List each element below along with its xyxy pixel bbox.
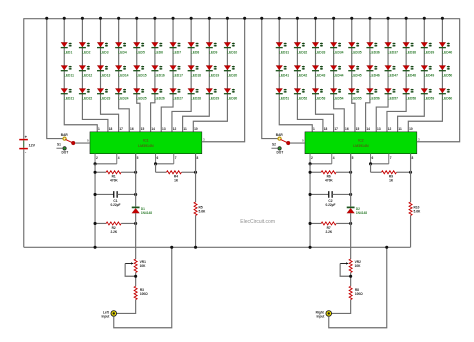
junction on +12V rail (column 5) — [135, 17, 138, 20]
junction R1 right — [134, 171, 137, 174]
wire D1 cathode column through ground rail to VR1 — [134, 213, 136, 259]
wire LED column 39 to IC2 pin 11 — [398, 18, 425, 132]
junction jack ground at rail (right) — [385, 246, 388, 249]
IC1 top pin numbers — [98, 127, 198, 131]
svg-text:R4: R4 — [174, 174, 178, 178]
svg-text:13: 13 — [377, 127, 381, 131]
junction on +12V rail (column 4) — [117, 17, 120, 20]
junction on +12V rail (column 9) — [208, 17, 211, 20]
svg-text:LM3914N: LM3914N — [353, 144, 369, 148]
wire ground bottom rail — [24, 246, 411, 248]
svg-text:LED39: LED39 — [424, 50, 434, 54]
svg-text:470K: 470K — [110, 178, 118, 182]
resistor R10 5.6K — [409, 202, 421, 215]
LED LED35 — [348, 42, 362, 54]
svg-text:Left: Left — [103, 310, 110, 314]
wire R8 to input jack — [332, 300, 351, 314]
LED LED2 — [79, 42, 91, 54]
trimmer VR1 10K — [125, 259, 146, 272]
svg-text:LED13: LED13 — [100, 73, 110, 77]
svg-text:1K: 1K — [174, 178, 179, 182]
svg-text:LED48: LED48 — [406, 73, 416, 77]
LED LED22 — [79, 88, 93, 100]
wire VR1 wiper loop — [125, 263, 135, 276]
LED LED33 — [312, 42, 326, 54]
wire jack ground return (right) — [329, 247, 387, 328]
wire IC2 pin8 column — [409, 154, 411, 202]
LED LED55 — [348, 88, 362, 100]
LED LED5 — [133, 42, 145, 54]
resistor R8 100 ohm — [349, 286, 363, 299]
resistor R6 4.70K — [310, 171, 351, 183]
svg-text:14: 14 — [151, 127, 155, 131]
junction R7 right — [349, 222, 352, 225]
LED LED20 — [224, 65, 238, 77]
svg-text:17: 17 — [334, 127, 338, 131]
svg-text:R1: R1 — [112, 174, 116, 178]
svg-text:LED15: LED15 — [136, 73, 146, 77]
wire IC2 pin2 column to ground rail — [309, 164, 311, 247]
svg-text:LED54: LED54 — [333, 96, 343, 100]
svg-text:LED60: LED60 — [442, 96, 452, 100]
junction jack ground at rail (left) — [170, 246, 173, 249]
wire IC1 pin2 column to ground rail — [94, 164, 96, 247]
LED LED53 — [312, 88, 326, 100]
LED LED4 — [115, 42, 127, 54]
svg-text:2.2K: 2.2K — [325, 230, 332, 234]
wire VR2 wiper loop — [340, 263, 351, 276]
wire LED column 37 to IC2 pin 13 — [376, 18, 388, 132]
svg-text:2: 2 — [311, 156, 313, 160]
svg-text:LED58: LED58 — [406, 96, 416, 100]
wire IC1 pin8 column — [194, 154, 196, 202]
svg-text:LED23: LED23 — [100, 96, 110, 100]
LED LED27 — [170, 88, 184, 100]
LED LED8 — [188, 42, 200, 54]
svg-text:2: 2 — [96, 156, 98, 160]
svg-text:LED14: LED14 — [118, 73, 128, 77]
svg-text:LED53: LED53 — [315, 96, 325, 100]
junction C2 left — [309, 193, 312, 196]
svg-text:R2: R2 — [112, 226, 116, 230]
LED LED40 — [439, 42, 453, 54]
LED LED1 — [61, 42, 73, 54]
svg-text:7: 7 — [390, 156, 392, 160]
junction IC1 V+ riser at +12V rail — [243, 17, 246, 20]
junction C1 left — [94, 193, 97, 196]
svg-text:D1: D1 — [141, 207, 145, 211]
svg-text:8: 8 — [412, 156, 414, 160]
svg-text:S2: S2 — [272, 142, 276, 146]
LED LED31 — [276, 42, 290, 54]
svg-text:LED44: LED44 — [333, 73, 343, 77]
wire LED column 9 to IC1 pin 11 — [183, 18, 210, 132]
svg-text:R6: R6 — [327, 174, 331, 178]
wire LED column 6 to IC1 pin 14 — [151, 18, 155, 132]
wire LED column 36 to IC2 pin 14 — [366, 18, 370, 132]
svg-text:5.6K: 5.6K — [414, 210, 421, 214]
LED LED21 — [61, 88, 75, 100]
svg-text:1: 1 — [313, 127, 315, 131]
wire LED column 7 to IC1 pin 13 — [161, 18, 173, 132]
resistor R4 1K — [156, 171, 196, 183]
svg-text:LED16: LED16 — [155, 73, 165, 77]
svg-text:LED3: LED3 — [100, 50, 109, 54]
wire battery positive feed (left edge) — [23, 18, 25, 139]
svg-text:LED17: LED17 — [173, 73, 183, 77]
svg-text:4: 4 — [333, 156, 335, 160]
wire +12V top supply rail — [24, 17, 460, 19]
svg-text:5: 5 — [137, 156, 139, 160]
svg-text:C1: C1 — [113, 199, 117, 203]
wire IC1 pin3 V+ to +12V rail — [202, 18, 245, 142]
LED LED3 — [97, 42, 109, 54]
wire VR1 bottom lead — [134, 272, 136, 286]
svg-text:LED28: LED28 — [191, 96, 201, 100]
LED LED52 — [294, 88, 308, 100]
junction R5 at ground rail — [194, 246, 197, 249]
svg-text:LED2: LED2 — [82, 50, 91, 54]
wire LED column 8 to IC1 pin 12 — [172, 18, 191, 132]
svg-text:R10: R10 — [414, 206, 420, 210]
svg-text:LED34: LED34 — [333, 50, 343, 54]
svg-text:1N4148: 1N4148 — [141, 211, 152, 215]
LED LED48 — [403, 65, 417, 77]
wire IC1 pin6-pin7 bridge — [156, 163, 174, 165]
LED LED57 — [385, 88, 399, 100]
svg-text:LED43: LED43 — [315, 73, 325, 77]
LED LED56 — [366, 88, 380, 100]
LED LED23 — [97, 88, 111, 100]
junction on +12V rail (column 10) — [226, 17, 229, 20]
svg-text:6: 6 — [157, 156, 159, 160]
wire LED column 10 to IC1 pin 10 — [193, 18, 227, 132]
svg-text:470K: 470K — [325, 178, 333, 182]
LED LED37 — [385, 42, 399, 54]
LED LED59 — [421, 88, 435, 100]
wire LED column 3 to IC1 pin 17 — [101, 18, 119, 132]
svg-text:DOT: DOT — [61, 150, 68, 154]
junction on +12V rail (column 3) — [99, 17, 102, 20]
junction on +12V rail (column 2) — [81, 17, 84, 20]
svg-text:LED19: LED19 — [209, 73, 219, 77]
IC IC1 LM3914N body — [90, 132, 202, 154]
svg-text:10K: 10K — [355, 264, 362, 268]
LED LED32 — [294, 42, 308, 54]
junction on +12V rail (column 1) — [63, 17, 66, 20]
junction R6 left — [309, 171, 312, 174]
diode D1 1N4148 — [132, 207, 152, 216]
svg-text:4: 4 — [118, 156, 120, 160]
LED LED9 — [206, 42, 218, 54]
svg-text:LED32: LED32 — [297, 50, 307, 54]
wire IC1 pin2-pin4 bridge — [95, 163, 117, 165]
svg-text:12V: 12V — [29, 143, 36, 147]
resistor R5 5.6K — [194, 202, 206, 215]
LED LED49 — [421, 65, 435, 77]
svg-text:11: 11 — [183, 127, 187, 131]
svg-text:LED10: LED10 — [227, 50, 237, 54]
svg-text:Right: Right — [316, 310, 325, 314]
wire IC2 pin2-pin4 bridge — [310, 163, 332, 165]
svg-text:BAR: BAR — [276, 133, 284, 137]
svg-text:LED31: LED31 — [279, 50, 289, 54]
svg-text:LED8: LED8 — [191, 50, 200, 54]
svg-text:LED37: LED37 — [388, 50, 398, 54]
svg-text:LED26: LED26 — [155, 96, 165, 100]
wire LED column 33 to IC2 pin 17 — [316, 18, 334, 132]
junction pin2 column at ground rail — [309, 246, 312, 249]
LED LED30 — [224, 88, 238, 100]
junction on +12V rail (column 6) — [153, 17, 156, 20]
LED LED58 — [403, 88, 417, 100]
LED LED28 — [188, 88, 202, 100]
LED LED60 — [439, 88, 453, 100]
wire LED column 5 to IC1 pin 15 — [137, 18, 140, 132]
svg-text:R9: R9 — [389, 174, 393, 178]
LED LED11 — [61, 65, 74, 77]
svg-text:5: 5 — [352, 156, 354, 160]
junction R4 right at pin8 column — [194, 171, 197, 174]
svg-text:5.6K: 5.6K — [199, 210, 206, 214]
svg-text:LED36: LED36 — [370, 50, 380, 54]
LED LED14 — [115, 65, 129, 77]
wire IC1 pin5 signal column — [134, 154, 136, 207]
LED LED38 — [403, 42, 417, 54]
resistor R2 2.2K — [95, 222, 136, 234]
LED LED19 — [206, 65, 220, 77]
svg-text:LED52: LED52 — [297, 96, 307, 100]
svg-text:LED22: LED22 — [82, 96, 92, 100]
LED LED43 — [312, 65, 326, 77]
junction R1 left — [94, 171, 97, 174]
junction IC1 pin2 bridge — [94, 162, 97, 165]
switch S2 mode select — [271, 133, 290, 155]
svg-text:LED41: LED41 — [279, 73, 289, 77]
connector Right input jack — [316, 310, 332, 318]
svg-text:LED9: LED9 — [209, 50, 218, 54]
LED LED54 — [330, 88, 344, 100]
connector Left input jack — [102, 310, 117, 318]
svg-text:17: 17 — [119, 127, 123, 131]
capacitor C2 0.22uF — [310, 191, 351, 207]
svg-text:LED55: LED55 — [351, 96, 361, 100]
svg-text:LM3914N: LM3914N — [138, 144, 154, 148]
svg-text:LED45: LED45 — [351, 73, 361, 77]
LED LED44 — [330, 65, 344, 77]
svg-text:100Ω: 100Ω — [355, 292, 363, 296]
wire IC2 pin6 to R9 — [369, 164, 371, 172]
junction on +12V rail (column 8) — [190, 17, 193, 20]
svg-text:1K: 1K — [389, 178, 394, 182]
svg-text:15: 15 — [356, 127, 360, 131]
svg-text:LED20: LED20 — [227, 73, 237, 77]
junction on +12V rail (column 39) — [423, 17, 426, 20]
junction IC1 pin6 bridge — [154, 162, 157, 165]
wire R3 to input jack — [117, 300, 136, 314]
junction pin2 column at ground rail — [94, 246, 97, 249]
junction on +12V rail (column 7) — [172, 17, 175, 20]
resistor R1 4.70K — [95, 171, 136, 183]
svg-text:10: 10 — [409, 127, 413, 131]
junction R6 right — [349, 171, 352, 174]
svg-text:7: 7 — [175, 156, 177, 160]
svg-text:R8: R8 — [355, 288, 359, 292]
wire IC2 pin6-pin7 bridge — [371, 163, 389, 165]
svg-text:LED33: LED33 — [315, 50, 325, 54]
LED LED13 — [97, 65, 111, 77]
svg-text:S1: S1 — [57, 142, 61, 146]
wire LED column 4 to IC1 pin 16 — [119, 18, 130, 132]
svg-text:LED21: LED21 — [64, 96, 74, 100]
wire jack ground return (left) — [114, 247, 172, 328]
junction on +12V rail (column 40) — [441, 17, 444, 20]
junction on +12V rail (column 31) — [278, 17, 281, 20]
svg-text:LED59: LED59 — [424, 96, 434, 100]
LED LED46 — [366, 65, 380, 77]
switch S1 mode select — [56, 133, 75, 155]
junction on +12V rail (column 38) — [405, 17, 408, 20]
svg-text:14: 14 — [366, 127, 370, 131]
trimmer VR2 10K — [340, 259, 361, 272]
svg-text:VR1: VR1 — [140, 260, 146, 264]
svg-text:16: 16 — [130, 127, 134, 131]
LED LED6 — [151, 42, 163, 54]
resistor R3 100 ohm — [134, 286, 148, 299]
svg-text:LED38: LED38 — [406, 50, 416, 54]
svg-text:LED1: LED1 — [64, 50, 73, 54]
svg-text:LED18: LED18 — [191, 73, 201, 77]
svg-text:BAR: BAR — [61, 133, 69, 137]
LED LED34 — [330, 42, 344, 54]
svg-text:R3: R3 — [140, 288, 144, 292]
svg-text:12: 12 — [173, 127, 177, 131]
junction on +12V rail (column 36) — [368, 17, 371, 20]
junction IC2 pin6 bridge — [369, 162, 372, 165]
junction on +12V rail (column 33) — [314, 17, 317, 20]
svg-text:15: 15 — [141, 127, 145, 131]
junction BAR supply column at +12V rail (left) — [45, 17, 48, 20]
svg-text:LED4: LED4 — [118, 50, 127, 54]
IC2 bottom pin stubs and numbers — [310, 154, 414, 173]
svg-text:LED46: LED46 — [370, 73, 380, 77]
LED LED47 — [385, 65, 399, 77]
svg-text:1: 1 — [98, 127, 100, 131]
svg-text:LED47: LED47 — [388, 73, 398, 77]
wire LED column 40 to IC2 pin 10 — [408, 18, 442, 132]
junction on +12V rail (column 32) — [296, 17, 299, 20]
junction R2 left — [94, 222, 97, 225]
wire D2 cathode column through ground rail to VR2 — [349, 213, 351, 259]
svg-text:LED7: LED7 — [173, 50, 182, 54]
svg-text:D2: D2 — [356, 207, 360, 211]
IC IC2 LM3914N body — [305, 132, 417, 154]
junction VR1 wiper to bottom — [134, 275, 137, 278]
svg-text:LED11: LED11 — [64, 73, 74, 77]
svg-text:2.2K: 2.2K — [110, 230, 117, 234]
LED LED10 — [224, 42, 238, 54]
svg-text:input: input — [317, 314, 326, 318]
svg-text:LED49: LED49 — [424, 73, 434, 77]
junction R2 right — [134, 222, 137, 225]
wire S1 pole to IC1 pin9 — [75, 142, 90, 144]
svg-text:R7: R7 — [327, 226, 331, 230]
svg-text:0.22µF: 0.22µF — [325, 203, 335, 207]
svg-text:0.22µF: 0.22µF — [110, 203, 120, 207]
LED LED25 — [133, 88, 147, 100]
LED LED26 — [151, 88, 165, 100]
svg-text:VR2: VR2 — [355, 260, 361, 264]
wire LED column 35 to IC2 pin 15 — [352, 18, 355, 132]
svg-text:LED6: LED6 — [155, 50, 164, 54]
junction VR2 wiper to bottom — [349, 275, 352, 278]
LED LED16 — [151, 65, 165, 77]
LED LED12 — [79, 65, 93, 77]
wire S2 pole to IC2 pin9 — [290, 142, 305, 144]
svg-text:R5: R5 — [199, 206, 203, 210]
wire LED column 2 to IC1 pin 18 — [82, 18, 108, 132]
wire LED column 32 to IC2 pin 18 — [297, 18, 323, 132]
resistor R9 1K — [371, 171, 411, 183]
junction R7 left — [309, 222, 312, 225]
LED LED36 — [366, 42, 380, 54]
junction on +12V rail (column 37) — [387, 17, 390, 20]
LED LED24 — [115, 88, 129, 100]
svg-text:LED35: LED35 — [351, 50, 361, 54]
svg-text:ElecCircuit.com: ElecCircuit.com — [240, 219, 275, 225]
svg-text:LED25: LED25 — [136, 96, 146, 100]
svg-text:13: 13 — [162, 127, 166, 131]
wire IC2 pin5 signal column — [349, 154, 351, 207]
LED LED51 — [276, 88, 290, 100]
LED LED15 — [133, 65, 147, 77]
battery B1 12V — [19, 134, 35, 154]
LED LED50 — [439, 65, 453, 77]
svg-text:12: 12 — [388, 127, 392, 131]
svg-text:LED12: LED12 — [82, 73, 92, 77]
IC1 bottom pin stubs and numbers — [95, 154, 199, 173]
LED LED18 — [188, 65, 202, 77]
LED LED17 — [170, 65, 184, 77]
IC2 top pin numbers — [313, 127, 413, 131]
LED LED7 — [170, 42, 182, 54]
wire R10 to ground rail — [409, 215, 411, 247]
junction C1 right — [134, 193, 137, 196]
svg-text:input: input — [102, 314, 111, 318]
junction R9 right at pin8 column — [409, 171, 412, 174]
resistor R7 2.2K — [310, 222, 351, 234]
LED LED39 — [421, 42, 435, 54]
junction on +12V rail (column 35) — [350, 17, 353, 20]
junction on +12V rail (column 34) — [332, 17, 335, 20]
svg-text:LED40: LED40 — [442, 50, 452, 54]
svg-text:LED51: LED51 — [279, 96, 289, 100]
wire LED column 38 to IC2 pin 12 — [387, 18, 406, 132]
svg-text:LED56: LED56 — [370, 96, 380, 100]
LED LED45 — [348, 65, 362, 77]
wire battery negative to ground rail — [23, 149, 25, 247]
wire +12V to S1 BAR terminal — [47, 18, 63, 138]
wire VR2 bottom lead — [349, 272, 351, 286]
capacitor C1 0.22uF — [95, 191, 136, 207]
wire R5 to ground rail — [194, 215, 196, 247]
svg-text:LED5: LED5 — [136, 50, 145, 54]
LED LED29 — [206, 88, 220, 100]
wire LED column 1 to IC1 pin 1 — [64, 18, 97, 132]
svg-text:DOT: DOT — [276, 150, 283, 154]
svg-text:11: 11 — [398, 127, 402, 131]
junction C2 right — [349, 193, 352, 196]
